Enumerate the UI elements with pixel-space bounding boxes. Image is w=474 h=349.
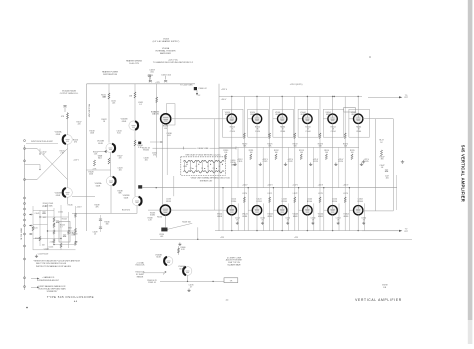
ground bot 4 [311, 222, 314, 225]
label V1134 [267, 214, 272, 218]
label V1013A [55, 131, 62, 136]
svg-text:.005: .005 [118, 170, 121, 172]
svg-text:C1049 R1049: C1049 R1049 [38, 254, 48, 256]
label C1059 [149, 70, 155, 74]
label mid2 2 [262, 159, 268, 163]
svg-text:6DJ8: 6DJ8 [156, 257, 160, 259]
resistor mid 1 [225, 154, 227, 160]
wire X cross a [37, 149, 68, 180]
wire h 196 [72, 196, 95, 198]
label V1063A [178, 265, 185, 270]
cell box V1144 [298, 187, 314, 231]
svg-text:C1040: C1040 [58, 211, 63, 213]
svg-text:R1133: R1133 [166, 201, 171, 203]
tube V1013B2 [106, 143, 115, 152]
svg-text:L1010: L1010 [231, 160, 236, 162]
label C1023 [118, 168, 123, 172]
resistor R1024 [108, 158, 110, 164]
svg-text:R1043: R1043 [60, 225, 65, 227]
svg-text:VERTICAL AMPLIFIER: VERTICAL AMPLIFIER [355, 298, 402, 302]
svg-text:L4: L4 [218, 166, 220, 168]
label dc shift [226, 257, 243, 266]
tube V1033 [161, 114, 171, 124]
label +225 rail [221, 84, 303, 91]
label 4-4 [226, 300, 229, 302]
label C1033 [144, 158, 149, 162]
capacitor C1051 [148, 75, 154, 82]
label V1124 above [256, 199, 261, 203]
svg-text:4-4: 4-4 [226, 300, 229, 302]
label T1 input [43, 203, 54, 207]
ground bot 1 [236, 222, 239, 225]
ground mid 4 [309, 163, 312, 166]
tube V1063B [164, 257, 173, 266]
svg-text:C1123: C1123 [313, 161, 318, 163]
connector block [194, 87, 207, 90]
label plug-in unit [87, 104, 89, 118]
label V1054 cathode [331, 127, 336, 133]
caption type 545 [47, 295, 94, 299]
label R1027 [118, 156, 123, 160]
svg-text:SCREWDRIVER ADJUST: SCREWDRIVER ADJUST [37, 279, 60, 282]
label R1136 [157, 216, 162, 218]
label L1031 [138, 102, 143, 106]
label V1013B-6DJ8 b [121, 119, 128, 123]
label revision marks [382, 285, 388, 289]
svg-text:L1173: L1173 [318, 193, 323, 195]
label mid2 5 [338, 159, 344, 163]
svg-text:C1012: C1012 [42, 152, 47, 154]
speck [369, 56, 371, 58]
wire V1013B cathode [67, 197, 69, 204]
label V1124 [242, 214, 247, 218]
wire V1133 cathode [164, 215, 166, 227]
svg-text:+100 V: +100 V [292, 184, 298, 186]
label V1164 below [361, 218, 366, 222]
label +225 [155, 82, 159, 84]
corner mark [26, 307, 28, 309]
scan edge strip right [468, 0, 473, 344]
svg-text:R1046: R1046 [68, 205, 73, 207]
label V1134 below [285, 218, 290, 222]
wire X cross b [37, 149, 68, 180]
label V1014 [225, 112, 230, 116]
svg-text:+ GAIN ADJ IS: + GAIN ADJ IS [42, 276, 55, 279]
ground term2 [362, 160, 365, 163]
label V1024 [250, 112, 255, 116]
svg-text:6DJ8: 6DJ8 [179, 268, 183, 270]
label R1034 [137, 145, 142, 149]
label heater power distribution [102, 71, 119, 76]
ground mid 1 [233, 163, 236, 166]
wire term mid faint [396, 175, 398, 210]
wire dc bal [143, 272, 164, 274]
ground note symbol [35, 255, 38, 258]
svg-text:273: 273 [153, 155, 156, 157]
svg-text:6DJ8: 6DJ8 [56, 134, 60, 136]
cell box V1134 [273, 187, 289, 231]
resistor bias 2 [269, 133, 271, 203]
svg-text:TO HEATER DECOUPLING NETWORK 2: TO HEATER DECOUPLING NETWORK 2-2 [153, 61, 194, 64]
svg-text:6DK6: 6DK6 [217, 216, 222, 218]
label R1011 [101, 95, 106, 99]
attenuator arrows [29, 214, 33, 235]
svg-text:47: 47 [43, 154, 45, 156]
label C1036 [166, 133, 171, 137]
attenuator resistors [32, 213, 77, 247]
label mid 5 [324, 150, 329, 154]
wire V1033 cathode a [162, 124, 164, 205]
junction block [138, 142, 141, 145]
tube V1034 [278, 114, 287, 123]
resistor R1021 [103, 93, 110, 99]
svg-text:R1164: R1164 [358, 201, 363, 203]
label C1013 [117, 131, 122, 135]
label L1133 [166, 199, 171, 203]
svg-text:+100 V: +100 V [267, 184, 273, 186]
svg-text:1-8: 1-8 [381, 167, 384, 169]
cell box V1034 [273, 109, 294, 137]
left terminal bus [24, 145, 26, 290]
resistor mid 3 [275, 154, 277, 160]
stub component X2 [25, 165, 41, 171]
label V1033 [154, 111, 159, 115]
svg-text:VERT SIG IN: VERT SIG IN [20, 228, 22, 240]
resistor mid 5 [325, 154, 327, 160]
svg-text:L3: L3 [207, 166, 209, 168]
resistor RL47 [379, 140, 383, 157]
svg-text:4.7: 4.7 [60, 226, 62, 228]
wire 110 down [110, 153, 112, 177]
svg-text:C1043: C1043 [44, 248, 49, 250]
svg-text:-150 V: -150 V [77, 207, 83, 209]
label misc mid [122, 210, 130, 212]
label to CRT top [404, 95, 409, 99]
svg-text:.005: .005 [144, 160, 147, 162]
wire output top [334, 96, 359, 97]
cell box V1044 [298, 109, 319, 137]
svg-text:6CB6: 6CB6 [150, 215, 155, 217]
ground mid 3 [284, 163, 287, 166]
tube V1133 [160, 205, 170, 215]
svg-text:+225: +225 [155, 82, 159, 84]
resistor mid 4 [300, 154, 302, 160]
wire column 135 [134, 84, 136, 121]
label internal trigger amplifier [156, 47, 176, 55]
arrow below connector [196, 90, 227, 101]
svg-text:C1121: C1121 [263, 161, 268, 163]
tube V1014 arc [129, 121, 138, 130]
note dc shift [31, 285, 66, 293]
wire h142 [150, 141, 163, 143]
svg-text:220: 220 [152, 114, 155, 116]
wire X stub top [25, 148, 38, 150]
label V1114 above [231, 199, 236, 203]
tube V1044 [303, 114, 312, 123]
svg-text:+100 V: +100 V [242, 184, 248, 186]
svg-text:390: 390 [381, 159, 384, 161]
resistor bias 4 [319, 133, 321, 203]
svg-text:DRIFT BALANCE RANGE FOR: DRIFT BALANCE RANGE FOR [39, 285, 66, 288]
junction block 2 [138, 185, 142, 188]
label to decoupling [180, 85, 193, 87]
capacitor input coupling [63, 106, 66, 113]
label heater wiring [126, 60, 142, 65]
label bias 2 [267, 144, 272, 148]
caption vertical amplifier [355, 298, 402, 302]
label V1014 cathode [230, 127, 235, 133]
svg-text:.005: .005 [385, 178, 388, 180]
svg-text:L1172: L1172 [293, 193, 298, 195]
label V1154 below [336, 218, 341, 222]
svg-text:6DJ8: 6DJ8 [124, 197, 128, 199]
wire V1164 cathode [357, 215, 359, 231]
svg-text:C1051: C1051 [148, 75, 154, 77]
capacitor C1052 [161, 75, 171, 83]
label R1026 [93, 152, 98, 156]
tube V1013B [63, 188, 73, 198]
note gain [31, 276, 60, 282]
cell box V1024 [248, 109, 269, 137]
svg-text:R1114: R1114 [231, 201, 236, 203]
wire mid rail 188 [142, 187, 397, 188]
capacitor CL47 [385, 170, 389, 180]
label output cathode follower [60, 90, 79, 95]
resistor bias 5 [344, 133, 346, 203]
label V1013B [55, 193, 62, 197]
svg-text:SYMMETRY: SYMMETRY [47, 291, 58, 293]
input connector [24, 140, 59, 144]
resistor mid 2 [250, 154, 252, 160]
wire 187 down [187, 275, 189, 281]
svg-text:6DJ8: 6DJ8 [96, 185, 100, 187]
cell box V1114 [222, 187, 238, 231]
tube V1024 [252, 114, 261, 123]
ground bottom mid [187, 289, 190, 292]
label R1039 [95, 205, 100, 209]
svg-text:L2: L2 [196, 166, 198, 168]
label bias2 1 [242, 184, 248, 195]
caption AB [74, 300, 78, 303]
wire V1114 cathode [231, 215, 233, 231]
label V1044 cathode [305, 127, 310, 133]
wire V1144 cathode [306, 215, 308, 231]
box DL termination [59, 222, 77, 243]
cell box V1064 [349, 109, 370, 137]
label R1038 [118, 191, 123, 195]
tube V1014 [227, 114, 236, 123]
ground mid 6 [360, 163, 363, 166]
ground term [401, 160, 404, 163]
label bias 3 [293, 144, 298, 148]
label R1060 [181, 247, 186, 251]
ground mid 2 [259, 163, 262, 166]
tube V1064 [354, 114, 363, 123]
label mid2 3 [287, 159, 293, 163]
label C1011 [111, 101, 116, 105]
svg-text:L1174: L1174 [343, 193, 348, 195]
resistor mid 6 [351, 154, 353, 160]
tube V1023B [132, 196, 141, 205]
label R1013 [60, 151, 65, 155]
svg-text:R1144: R1144 [307, 201, 312, 203]
svg-text:220: 220 [78, 124, 81, 126]
svg-text:.005: .005 [167, 135, 171, 137]
tube V1013A [63, 135, 73, 145]
wire output bottom arrow [362, 230, 402, 232]
label V1023B [123, 195, 130, 199]
wire grid line 147 [219, 146, 359, 148]
wire V1013A anode [67, 112, 69, 135]
svg-text:OUTPUT CATH FOLL: OUTPUT CATH FOLL [60, 92, 79, 95]
label V1034 cathode [280, 127, 285, 133]
svg-text:0.1: 0.1 [139, 104, 142, 106]
label bias2 2 [267, 184, 273, 195]
box above V1133 [173, 176, 175, 196]
ground mid 5 [334, 163, 337, 166]
label term texts [380, 157, 385, 170]
svg-text:INPUT FROM PLUG-IN UNIT: INPUT FROM PLUG-IN UNIT [31, 141, 53, 143]
label vertical signal [20, 228, 22, 240]
svg-text:6DK6: 6DK6 [275, 114, 280, 116]
wire grid attenuator [33, 204, 76, 250]
svg-text:C1041: C1041 [35, 213, 40, 215]
svg-text:.005: .005 [150, 72, 154, 74]
svg-text:C1120: C1120 [237, 161, 242, 163]
mid-left extra comps [93, 215, 110, 236]
svg-text:.001: .001 [42, 217, 45, 219]
svg-text:L1170: L1170 [242, 193, 247, 195]
svg-text:100: 100 [275, 152, 278, 154]
wire V1133 grid in [148, 209, 160, 211]
svg-text:.005: .005 [160, 236, 163, 238]
pot dc bal [163, 272, 166, 275]
label R1017 [77, 122, 82, 126]
svg-text:6DK6: 6DK6 [344, 216, 349, 218]
label mid2 1 [237, 159, 243, 163]
label mid 4 [299, 150, 304, 154]
svg-text:6DK6: 6DK6 [225, 114, 230, 116]
svg-text:SQUARE WAVE: SQUARE WAVE [227, 264, 241, 267]
label bias2 3 [292, 184, 298, 195]
svg-text:C1034: C1034 [280, 131, 285, 133]
svg-text:* DELAY LINE: NOMINAL IMPEDAN: * DELAY LINE: NOMINAL IMPEDANCE 186 Ω T1… [190, 176, 230, 179]
wire output top arrow [368, 96, 402, 98]
svg-text:DISTRIBUTION: DISTRIBUTION [103, 74, 118, 76]
svg-text:R1154: R1154 [332, 201, 337, 203]
tube V1154 [328, 206, 337, 215]
wire v 178 [177, 246, 179, 255]
svg-text:+225 V: +225 V [221, 89, 228, 91]
resistor R1033 [134, 140, 136, 146]
wire 137 down3 [136, 206, 138, 214]
svg-text:545 VERTICAL AMPLIFIER: 545 VERTICAL AMPLIFIER [461, 145, 466, 202]
label V1144 [293, 214, 298, 218]
label mid 1 [223, 150, 228, 154]
label V1034 [275, 112, 280, 116]
svg-text:6DK6: 6DK6 [242, 216, 247, 218]
wire 111 down2 [110, 186, 112, 214]
wire X stub bottom [25, 179, 38, 181]
label bias 1 [242, 144, 247, 148]
tube V1164 [354, 206, 363, 215]
svg-text:C1122: C1122 [288, 161, 293, 163]
svg-text:6DJ8: 6DJ8 [122, 121, 126, 123]
delay line network [181, 154, 226, 176]
svg-text:C1060 .02: C1060 .02 [198, 88, 206, 90]
resistor R1025 [93, 160, 97, 171]
svg-text:6DK6: 6DK6 [351, 114, 356, 116]
svg-text:ELECTRICAL SHIFT AND GAIN: ELECTRICAL SHIFT AND GAIN [38, 288, 66, 291]
label V1144 below [310, 218, 315, 222]
svg-text:330: 330 [106, 224, 109, 226]
wire 135 down [134, 130, 136, 196]
label V1013B 6DJ8 [97, 141, 104, 145]
label C1136 [159, 234, 164, 238]
wire v 197.8 [197, 227, 198, 240]
label V1164 above [358, 199, 363, 203]
svg-text:AMPLIFIER: AMPLIFIER [160, 52, 171, 55]
attenuator extra marks [38, 212, 66, 256]
label to CRT bottom [404, 229, 409, 233]
svg-text:R1013: R1013 [60, 151, 65, 153]
svg-text:R1137 470: R1137 470 [122, 210, 130, 212]
ground 240 rail [178, 243, 181, 246]
label R1138 [148, 218, 153, 222]
svg-text:C1063 .01: C1063 .01 [148, 282, 156, 284]
wire +225 feed [218, 84, 220, 231]
shield box top [166, 104, 175, 125]
label R1029 [73, 160, 79, 162]
tube V1144 [303, 206, 312, 215]
cell box V1164 [349, 187, 365, 231]
wire V1133 plate out [171, 209, 223, 211]
label V1144 above [307, 199, 312, 203]
svg-text:+225 V: +225 V [73, 160, 79, 162]
cell box V1154 [323, 187, 339, 231]
cell box V1014 [223, 109, 244, 137]
wire rail 281 [160, 281, 224, 282]
svg-text:50-60 CPS: 50-60 CPS [129, 63, 139, 65]
label R1018 [90, 131, 95, 135]
label dc shift range [136, 272, 146, 279]
svg-text:R1044: R1044 [62, 218, 67, 220]
svg-text:6DK6: 6DK6 [326, 114, 331, 116]
label V1164 [343, 214, 348, 218]
label bias 4 [318, 144, 323, 148]
label minus150 [77, 207, 83, 209]
svg-text:R1061 10K: R1061 10K [136, 265, 146, 267]
svg-text:6DK6: 6DK6 [301, 114, 306, 116]
svg-text:C1044: C1044 [305, 131, 310, 133]
svg-text:C1052 .005: C1052 .005 [161, 75, 171, 77]
label R1022 [101, 119, 106, 123]
svg-text:* 3X 1 330K: * 3X 1 330K [43, 205, 53, 207]
svg-text:C1124: C1124 [338, 161, 343, 163]
label V1124 below [260, 218, 265, 222]
svg-text:C3: C3 [213, 168, 215, 170]
box test load [224, 278, 238, 283]
label V1063 heater note [153, 39, 180, 44]
label mid 3 [274, 150, 279, 154]
wire bottom rail [215, 230, 398, 231]
svg-text:6DK6: 6DK6 [318, 216, 323, 218]
stub component X [39, 149, 46, 156]
label bias 5 [343, 144, 348, 148]
svg-text:6DK6: 6DK6 [293, 216, 298, 218]
svg-text:R1041: R1041 [33, 228, 38, 230]
resistor bias 1 [243, 133, 245, 203]
